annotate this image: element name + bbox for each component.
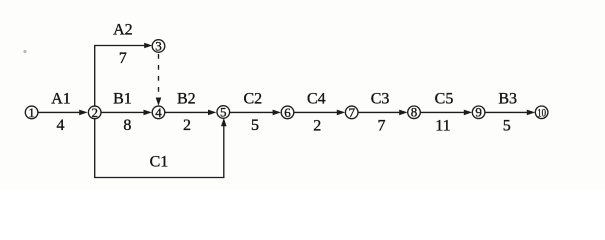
svg-text:1: 1 xyxy=(28,105,35,120)
node 8 xyxy=(408,105,421,120)
svg-text:10: 10 xyxy=(537,105,546,119)
svg-text:4: 4 xyxy=(57,117,65,134)
svg-text:3: 3 xyxy=(155,38,162,53)
svg-text:2: 2 xyxy=(183,117,191,134)
svg-text:7: 7 xyxy=(378,117,386,134)
svg-text:2: 2 xyxy=(313,117,321,134)
svg-text:4: 4 xyxy=(155,105,162,120)
node 7 xyxy=(345,105,358,120)
node 4 xyxy=(152,105,165,120)
svg-text:C3: C3 xyxy=(371,90,390,107)
svg-text:C2: C2 xyxy=(243,90,262,107)
svg-text:C5: C5 xyxy=(435,90,454,107)
svg-text:7: 7 xyxy=(348,105,355,120)
svg-text:2: 2 xyxy=(91,105,98,120)
wire A1: node 1 to node 2 xyxy=(38,111,81,113)
svg-text:8: 8 xyxy=(411,105,418,120)
svg-text:5: 5 xyxy=(503,117,511,134)
svg-text:7: 7 xyxy=(119,50,127,67)
wire B2: node 4 to node 5 xyxy=(165,111,210,113)
svg-text:9: 9 xyxy=(475,105,482,120)
wire C4: node 6 to node 7 xyxy=(294,111,338,113)
node 9 xyxy=(472,105,485,120)
node 5 xyxy=(217,104,230,119)
wire B3: node 9 to node 10 xyxy=(485,111,528,113)
svg-text:6: 6 xyxy=(284,105,291,120)
svg-text:8: 8 xyxy=(123,117,131,134)
wire C2: node 5 to node 6 xyxy=(230,111,275,113)
svg-text:C4: C4 xyxy=(307,90,326,107)
svg-text:A2: A2 xyxy=(113,22,133,39)
speck artifact xyxy=(23,50,26,53)
node 10 xyxy=(535,105,548,119)
svg-text:5: 5 xyxy=(251,117,259,134)
svg-text:C1: C1 xyxy=(150,154,169,171)
wire C5: node 8 to node 9 xyxy=(421,111,466,113)
svg-text:B1: B1 xyxy=(113,90,132,107)
svg-text:A1: A1 xyxy=(51,90,71,107)
wire B1: node 2 to node 4 xyxy=(101,111,145,113)
svg-text:11: 11 xyxy=(435,117,450,134)
svg-text:5: 5 xyxy=(220,104,227,119)
wire C3: node 7 to node 8 xyxy=(358,111,401,113)
node 3 xyxy=(152,38,165,53)
wire C1 elbow: node 2 down, right, up into node 5 xyxy=(95,119,224,178)
svg-text:B2: B2 xyxy=(177,90,196,107)
node 2 xyxy=(88,105,101,120)
dummy activity wire: node 3 dashed down to node 4 xyxy=(158,54,160,99)
node 1 xyxy=(25,105,38,120)
svg-text:B3: B3 xyxy=(498,90,517,107)
node 6 xyxy=(281,105,294,120)
wire A2 elbow: node 2 up then right to node 3 xyxy=(95,46,146,107)
